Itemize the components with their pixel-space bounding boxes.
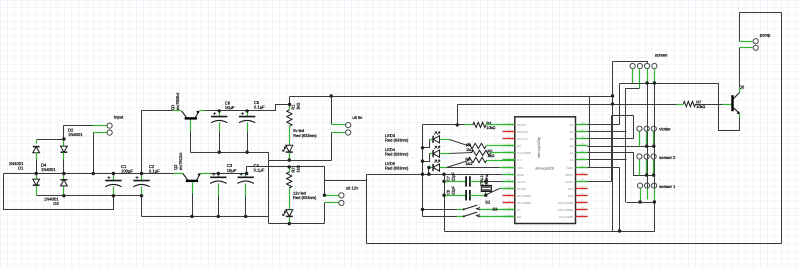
- junction R1 top: [288, 103, 291, 106]
- svg-text:22pF: 22pF: [451, 185, 455, 194]
- junction A2 vlotter3: [652, 145, 655, 148]
- wire A2 row: [588, 146, 654, 148]
- wire A0 row: [588, 159, 627, 161]
- wire sensor2 pin3 stub: [653, 160, 655, 176]
- connector J1 Input: [107, 115, 124, 136]
- svg-text:AREF: AREF: [565, 173, 573, 177]
- svg-text:screen: screen: [655, 53, 668, 58]
- wire Q2 mid stub: [192, 183, 194, 194]
- wire LED5 step: [428, 168, 430, 175]
- wire D3 bottom stub: [63, 187, 65, 196]
- wire 5v distribution: [290, 96, 613, 98]
- junction XTAL top: [484, 180, 487, 183]
- wire green XTAL1 lead: [503, 181, 515, 183]
- label R3: [486, 121, 495, 130]
- wire R7 row: [458, 104, 677, 106]
- pin left D1 (TX) pin 3: [503, 138, 515, 140]
- wire A5 row: [588, 124, 620, 126]
- wire 12v rail: [211, 173, 247, 175]
- wire sensor1 pin1 stub: [640, 189, 642, 203]
- diode D1: [33, 147, 40, 153]
- junction bus gnd cross: [421, 173, 424, 176]
- svg-text:C7: C7: [446, 176, 450, 181]
- wire vlotter2 vertical: [647, 84, 649, 200]
- svg-text:D9 (PWM): D9 (PWM): [559, 215, 573, 219]
- LED1 5v led: [283, 145, 293, 152]
- junction A1 sensor2c: [652, 173, 655, 176]
- diode D3: [61, 180, 68, 186]
- wire R1 to LED1: [289, 127, 291, 146]
- junction sensor1 pin3: [653, 200, 656, 203]
- wire screen3 top: [613, 62, 648, 64]
- junction bus C8: [442, 194, 445, 197]
- wire crystal top stub: [485, 182, 487, 186]
- svg-text:Input: Input: [114, 115, 124, 120]
- wire LED1 gnd link: [269, 160, 332, 162]
- junction uit12v pin1: [323, 194, 326, 197]
- wire Q5 emitter stub: [739, 114, 741, 118]
- capacitor C4: [238, 173, 254, 184]
- junction bottom bus C1: [112, 194, 115, 197]
- wire screen1 step: [620, 83, 633, 85]
- junction mid bus input: [92, 172, 95, 175]
- connector pomp: [753, 33, 771, 51]
- svg-text:1N4001: 1N4001: [68, 132, 83, 137]
- junction R2 top: [288, 165, 291, 168]
- wire VCC row: [447, 167, 500, 169]
- svg-text:mc7812ct: mc7812ct: [178, 152, 183, 170]
- junction bottom gnd: [618, 229, 621, 232]
- junction uit5v tap: [330, 94, 333, 97]
- svg-text:XLAT2: XLAT2: [517, 187, 526, 191]
- wire uit12v drop: [324, 167, 326, 196]
- wire green R6 to D4: [487, 160, 515, 162]
- wire uit5v top riser: [331, 97, 333, 125]
- svg-text:A5: A5: [570, 123, 574, 127]
- label LED1: [293, 128, 317, 138]
- wire green R5 to D3: [491, 152, 515, 154]
- svg-text:1kΩ: 1kΩ: [488, 154, 495, 158]
- svg-text:C8: C8: [446, 190, 450, 195]
- connector screen: [630, 53, 668, 69]
- svg-text:10µF: 10µF: [227, 168, 237, 173]
- svg-text:A4: A4: [570, 130, 574, 134]
- label C6: [225, 100, 235, 110]
- svg-text:D7: D7: [517, 208, 521, 212]
- wire LED5 cathode lead: [429, 167, 434, 169]
- pin left D8 pin 14: [503, 216, 515, 218]
- svg-text:R4: R4: [466, 143, 471, 147]
- wire C7C8 gnd bus: [444, 175, 446, 232]
- wire green uit12v pin2: [325, 202, 339, 204]
- pin right A1 pin 24: [576, 152, 588, 154]
- pin left XLAT1 pin 9: [503, 181, 515, 183]
- junction bottom bus D3: [62, 194, 65, 197]
- wire sensor2 pin2 stub: [646, 160, 648, 176]
- wire LED2 cathode stub: [289, 218, 291, 224]
- junction 5v rail C5: [245, 109, 248, 112]
- svg-text:A3: A3: [570, 137, 574, 141]
- label C5: [254, 100, 265, 110]
- label C1: [121, 164, 133, 174]
- connector uit 12v: [339, 185, 359, 205]
- wire green uit12v pin1: [325, 195, 339, 197]
- wire C3 to rail: [218, 196, 220, 217]
- svg-text:pomp: pomp: [760, 33, 771, 38]
- voltage regulator Q1 mc7805ct: [182, 111, 200, 119]
- junction LED5 gnd: [427, 173, 430, 176]
- pin right AREF pin 21: [576, 174, 588, 176]
- wire green R3 to RESET: [486, 124, 515, 126]
- wire XTAL2 diagonal: [487, 189, 500, 195]
- wire C4 riser: [246, 167, 248, 174]
- svg-text:sensor 2: sensor 2: [659, 155, 676, 160]
- junction A1 sensor2b: [645, 173, 648, 176]
- wire frame top: [740, 12, 782, 14]
- wire uit12v pin2 drop: [324, 203, 326, 224]
- wire green pomp pin1: [740, 41, 753, 43]
- svg-text:10kΩ: 10kΩ: [696, 105, 705, 109]
- svg-text:D8: D8: [517, 215, 521, 219]
- wire LED4 anode lead: [440, 153, 450, 155]
- wire C3 bottom stub: [218, 184, 220, 196]
- svg-text:D13: D13: [568, 187, 574, 191]
- wire gnd to frame: [325, 180, 367, 182]
- svg-text:D0 (RX): D0 (RX): [517, 130, 528, 134]
- wire C2 top stub: [141, 174, 143, 181]
- svg-text:D10 (PWM): D10 (PWM): [558, 208, 574, 212]
- LED2 12v led: [283, 210, 293, 217]
- wire crystal bottom stub: [485, 192, 487, 196]
- wire green Q5 base lead: [723, 104, 732, 106]
- wire middle bus: [4, 173, 174, 175]
- wire A4 row: [588, 131, 627, 133]
- wire sensor1 pin2 stub: [647, 189, 649, 200]
- svg-text:Red (633nm): Red (633nm): [385, 152, 409, 157]
- svg-text:D12: D12: [568, 194, 574, 198]
- wire A3 riser: [633, 116, 635, 139]
- wire 5v rail: [206, 105, 290, 111]
- wire D3 top stub: [63, 174, 65, 180]
- wire C6 to rail: [219, 132, 221, 153]
- diode D2: [61, 146, 68, 152]
- svg-text:RESET: RESET: [517, 123, 527, 127]
- wire C5 top stub: [247, 111, 249, 117]
- LED4: [433, 146, 440, 157]
- wire return loop: [4, 174, 114, 210]
- wire 12v feed: [247, 166, 325, 168]
- wire green XTAL2 lead: [500, 188, 515, 190]
- wire LED4 cathode lead: [430, 153, 434, 155]
- wire screen4 stub: [654, 69, 656, 84]
- connector sensor 2: [637, 154, 676, 160]
- wire uit5v pin2 drop: [331, 133, 333, 161]
- wire sensor1 pin3 stub: [654, 189, 656, 203]
- capacitor C3: [210, 173, 226, 184]
- svg-text:D1: D1: [18, 165, 24, 170]
- capacitor C5: [239, 112, 255, 123]
- wire green input bottom: [94, 132, 107, 134]
- wire Q1 mid stub: [190, 120, 192, 132]
- label C4: [254, 163, 265, 173]
- wire C7 right lead: [470, 181, 486, 183]
- wire C1 top stub: [113, 174, 115, 181]
- junction bottom bus C2: [140, 194, 143, 197]
- svg-text:D4: D4: [517, 158, 521, 162]
- svg-text:VCC: VCC: [517, 166, 524, 170]
- wire LED3 anode lead: [440, 139, 450, 141]
- wire green Q1 in lead: [173, 110, 182, 112]
- IC U1 atmega328: [515, 117, 576, 224]
- wire sensor2 pin1 stub: [639, 160, 641, 176]
- wire AVCC row: [588, 181, 612, 183]
- svg-text:1kΩ: 1kΩ: [295, 165, 300, 172]
- wire GND right drop: [619, 168, 621, 232]
- wire green input top: [93, 125, 107, 127]
- pin right D11 (PWM) pin 17: [576, 202, 588, 204]
- label C3: [227, 163, 237, 173]
- wire R3 left: [458, 124, 465, 126]
- capacitor C7 22pF: [466, 176, 470, 186]
- wire LED anode bus: [422, 125, 424, 217]
- junction bus LED3: [421, 146, 424, 149]
- svg-text:S3: S3: [493, 207, 499, 212]
- wire 12v gnd link: [269, 223, 325, 225]
- svg-text:atmega328p: atmega328p: [537, 137, 541, 158]
- pin left RESET pin 1: [503, 124, 515, 126]
- label R7: [696, 101, 705, 110]
- svg-text:R6: R6: [465, 158, 470, 162]
- wire vlotter3 vertical: [654, 84, 656, 232]
- wire GND right row: [588, 167, 620, 169]
- resistor R7 10k: [683, 101, 695, 106]
- connector vlotter: [637, 126, 672, 132]
- wire C3 top stub: [218, 174, 220, 178]
- wire green S3 right lead: [480, 216, 515, 218]
- wire C2 bottom stub: [141, 187, 143, 196]
- switch S3: [463, 212, 480, 217]
- svg-text:Red (633nm): Red (633nm): [385, 138, 409, 143]
- capacitor C8 22pF: [466, 190, 470, 200]
- wire sensor1 row: [627, 202, 655, 204]
- svg-text:A0: A0: [570, 158, 574, 162]
- wire green Q1 out lead: [200, 110, 206, 112]
- pin left D6 (PWM) pin 12: [503, 202, 515, 204]
- capacitor C1: [105, 176, 121, 187]
- junction rail C3 bottom: [217, 215, 220, 218]
- wire A5 riser: [619, 84, 621, 125]
- wire LED4 link: [450, 153, 472, 154]
- junction h2 screen3: [645, 81, 648, 84]
- wire green R4 to D2: [487, 145, 515, 147]
- wire C1 bottom stub: [113, 187, 115, 196]
- svg-text:A2: A2: [570, 144, 574, 148]
- wire gnd riser: [589, 97, 591, 168]
- wire D2 to mid bus: [63, 160, 65, 174]
- label LED3: [385, 133, 409, 143]
- svg-text:0.1µF: 0.1µF: [254, 105, 265, 110]
- junction bus S2: [421, 208, 424, 211]
- switch S2: [463, 205, 480, 210]
- pin right A4 pin 27: [576, 131, 588, 133]
- wire green Q2 input lead: [174, 173, 184, 175]
- pin right A5 pin 28: [576, 124, 588, 126]
- wire S3 left: [423, 216, 457, 218]
- wire D2 bottom stub: [63, 153, 65, 160]
- junction bus C2: [140, 172, 143, 175]
- svg-text:10µF: 10µF: [225, 105, 235, 110]
- svg-text:Red (633nm): Red (633nm): [293, 195, 317, 200]
- svg-text:D3: D3: [53, 201, 59, 206]
- wire LED5 anode lead: [440, 167, 447, 169]
- connector sensor 1: [638, 183, 677, 189]
- svg-text:vlotter: vlotter: [659, 127, 671, 132]
- label D4: [41, 163, 56, 173]
- wire bottom gnd run: [445, 231, 655, 233]
- junction mid bus D2: [62, 172, 65, 175]
- label R5: [488, 149, 495, 158]
- wire C4 top stub: [245, 174, 247, 178]
- junction mid bus D1: [35, 172, 38, 175]
- wire C6 top stub: [219, 111, 221, 117]
- pin right D13 pin 19: [576, 188, 588, 190]
- wire C4 bottom stub: [245, 184, 247, 196]
- wire R2 to LED2: [289, 189, 291, 210]
- connector uit 5v: [346, 115, 364, 135]
- wire 5v net vertical: [612, 62, 614, 232]
- wire D1 bottom stub: [36, 153, 38, 160]
- wire frame right: [781, 13, 783, 244]
- pin left VCC pin 7: [503, 167, 515, 169]
- pin right GND pin 22: [576, 167, 588, 169]
- resistor R6 1k: [468, 157, 487, 162]
- wire to Q1: [142, 110, 173, 112]
- svg-text:S2: S2: [485, 199, 491, 204]
- LED3: [433, 132, 440, 143]
- svg-text:sensor 1: sensor 1: [659, 184, 676, 189]
- wire RESET row: [423, 124, 458, 126]
- svg-text:mc7805ct: mc7805ct: [175, 92, 180, 110]
- wire LED1 cathode stub: [289, 153, 291, 161]
- pin left D0 (RX) pin 2: [503, 131, 515, 133]
- wire D4 bottom stub: [36, 186, 38, 196]
- wire bottom bus: [37, 195, 142, 197]
- pin left D2 pin 4: [503, 145, 515, 147]
- svg-text:1kΩ: 1kΩ: [296, 103, 301, 110]
- wire C7 left lead: [445, 181, 467, 183]
- wire 12v gnd rail: [142, 216, 269, 218]
- junction rail C4 bottom: [244, 215, 247, 218]
- wire green VCC lead: [500, 167, 515, 169]
- junction rail C6 bottom: [218, 151, 221, 154]
- svg-text:D11 (PWM): D11 (PWM): [558, 201, 573, 205]
- wire C5 bottom stub: [247, 123, 249, 132]
- wire screen1 stub: [632, 69, 634, 84]
- wire S2 left: [423, 209, 457, 211]
- wire Q5 collector up: [739, 48, 741, 88]
- wire frame bottom: [367, 243, 782, 245]
- junction bridge top: [62, 137, 65, 140]
- wire green S3 left lead: [457, 216, 464, 218]
- junction LED5 lead: [427, 166, 430, 169]
- junction R7 net: [611, 102, 614, 105]
- svg-text:D5 (PWM): D5 (PWM): [517, 194, 531, 198]
- wire A1 row: [588, 153, 654, 176]
- wire R3 riser: [457, 105, 459, 125]
- wire AVCC link: [612, 115, 634, 117]
- pin left D4 pin 6: [503, 159, 515, 161]
- svg-text:GND: GND: [567, 166, 575, 170]
- junction rail Q2 mid: [190, 215, 193, 218]
- wire LED4 step: [423, 154, 430, 162]
- resistor R3 10k: [473, 122, 486, 127]
- svg-text:XTAL1: XTAL1: [480, 175, 484, 186]
- wire D2 top stub: [63, 140, 65, 147]
- pin left D3 (PWM) pin 5: [503, 152, 515, 154]
- label LED4: [385, 147, 409, 157]
- transistor Q5: [733, 92, 741, 114]
- svg-text:D3 (PWM): D3 (PWM): [517, 151, 531, 155]
- wire green R7 left lead: [677, 104, 684, 106]
- wire screen2 step: [626, 88, 640, 90]
- svg-text:R7: R7: [696, 101, 701, 105]
- wire C5 to rail: [247, 132, 249, 153]
- svg-text:D6 (PWM): D6 (PWM): [517, 201, 531, 205]
- wire green S2 left lead: [457, 209, 464, 211]
- pin left D7 pin 13: [503, 209, 515, 211]
- wire screen2 stub: [639, 69, 641, 89]
- wire Q1 mid to rail: [190, 132, 192, 153]
- junction bus gnd: [442, 173, 445, 176]
- svg-text:D1 (TX): D1 (TX): [517, 137, 528, 141]
- svg-text:Red (633nm): Red (633nm): [385, 166, 409, 171]
- pin right AVCC pin 20: [576, 181, 588, 183]
- svg-text:10kΩ: 10kΩ: [486, 126, 495, 130]
- wire vlotter1 stub: [639, 132, 641, 147]
- wire D4 top stub: [36, 174, 38, 180]
- resistor R4 1k: [467, 143, 486, 148]
- svg-text:A1: A1: [570, 151, 574, 155]
- wire AVCC riser: [611, 116, 613, 182]
- pin right D9 (PWM) pin 15: [576, 216, 588, 218]
- pin right A2 pin 25: [576, 145, 588, 147]
- wire LED3 cathode lead: [430, 139, 434, 141]
- wire vlotter2 stub: [646, 132, 648, 147]
- wire LED5 diagonal: [447, 161, 469, 168]
- pin left GND pin 8: [503, 174, 515, 176]
- junction 12v rail C3: [217, 172, 220, 175]
- junction LED1 cathode: [288, 158, 291, 161]
- junction rail C5 bottom: [245, 151, 248, 154]
- diode D4: [33, 179, 40, 185]
- label LED2: [293, 191, 317, 201]
- svg-text:atmega328: atmega328: [535, 166, 554, 170]
- junction 5v net: [611, 94, 614, 97]
- pin right D10 (PWM) pin 16: [576, 209, 588, 211]
- junction 12v rail C4: [245, 172, 248, 175]
- wire C4 to rail: [245, 196, 247, 217]
- crystal XTAL1 16MHz: [481, 186, 492, 192]
- wire input bottom drop: [93, 133, 95, 174]
- wire D1 to mid bus: [36, 160, 38, 174]
- junction sensor1 pin1: [638, 200, 641, 203]
- wire C6 bottom stub: [219, 123, 221, 132]
- junction LED2 cathode: [288, 222, 291, 225]
- wire bridge top bus: [37, 139, 64, 141]
- wire R1 top lead: [289, 105, 291, 110]
- junction R3: [456, 123, 459, 126]
- junction A2 vlotter2: [645, 145, 648, 148]
